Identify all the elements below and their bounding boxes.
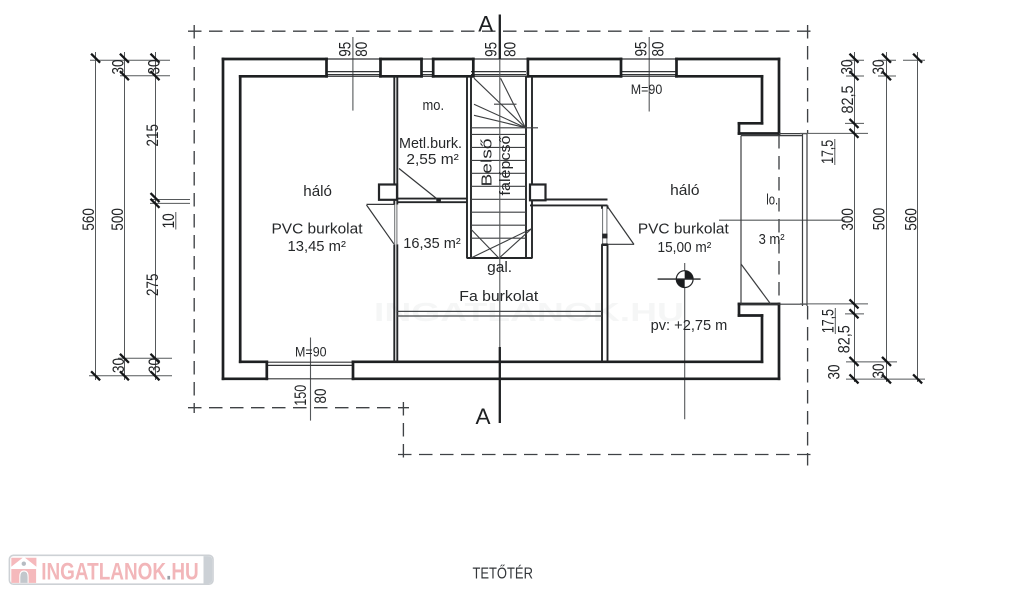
svg-text:INGATLANOK.HU: INGATLANOK.HU [41,558,199,585]
svg-text:PVC burkolat: PVC burkolat [638,222,729,238]
svg-text:gal.: gal. [487,260,512,276]
svg-text:3 m²: 3 m² [759,232,785,248]
svg-text:30: 30 [110,60,128,75]
svg-text:Belső: Belső [480,139,496,187]
svg-text:Metl.burk.: Metl.burk. [399,136,462,152]
svg-text:háló: háló [303,184,332,200]
svg-text:95: 95 [633,42,651,57]
svg-text:30: 30 [870,60,888,75]
svg-text:30: 30 [146,358,164,373]
svg-text:30: 30 [839,60,857,75]
svg-text:82,5: 82,5 [839,86,857,114]
svg-text:80: 80 [353,42,371,57]
svg-text:300: 300 [839,208,857,230]
svg-text:TETŐTÉR: TETŐTÉR [472,566,533,583]
svg-text:95: 95 [336,42,354,57]
svg-text:Fa burkolat: Fa burkolat [459,289,538,305]
svg-text:30: 30 [826,365,844,380]
svg-text:A: A [478,12,493,37]
svg-text:275: 275 [144,274,162,296]
svg-text:falépcső: falépcső [498,136,514,196]
svg-text:16,35 m²: 16,35 m² [403,236,461,252]
svg-text:A: A [475,404,490,429]
svg-text:M=90: M=90 [631,82,663,97]
svg-text:500: 500 [109,208,127,230]
svg-text:10: 10 [160,213,178,228]
svg-text:PVC burkolat: PVC burkolat [272,221,363,237]
svg-text:30: 30 [110,358,128,373]
svg-text:560: 560 [902,208,920,230]
svg-text:80: 80 [312,389,330,404]
svg-text:80: 80 [501,42,519,57]
svg-text:lo.: lo. [766,193,778,209]
svg-text:80: 80 [650,42,668,57]
svg-text:215: 215 [144,124,162,146]
svg-text:pv: +2,75 m: pv: +2,75 m [651,318,728,334]
svg-text:500: 500 [871,208,889,230]
svg-text:13,45 m²: 13,45 m² [288,239,347,255]
svg-text:15,00 m²: 15,00 m² [658,240,712,256]
svg-text:háló: háló [670,183,699,199]
svg-text:30: 30 [146,60,164,75]
svg-text:95: 95 [483,42,501,57]
svg-text:560: 560 [80,208,98,230]
svg-text:2,55 m²: 2,55 m² [406,152,459,168]
svg-text:30: 30 [870,364,888,379]
svg-text:150: 150 [292,385,310,406]
svg-text:17,5: 17,5 [819,140,837,164]
svg-text:mo.: mo. [423,98,445,114]
svg-text:82,5: 82,5 [835,325,853,353]
svg-text:M=90: M=90 [295,345,327,360]
